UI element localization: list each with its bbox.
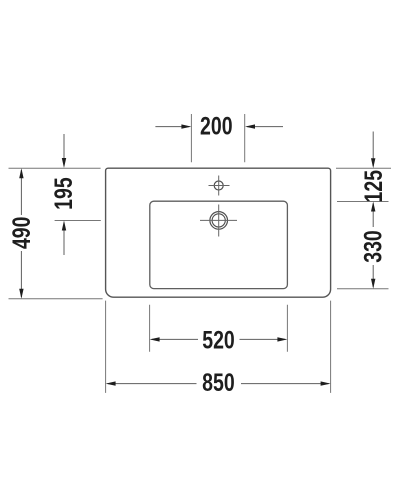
drain crosshair (200, 205, 237, 237)
dimension 850 dimension line with text gap (108, 383, 329, 385)
dimension 490 bottom arrowhead (19, 289, 23, 299)
faucet hole crosshair (209, 176, 230, 196)
dimension 195 lower arrow line (63, 223, 65, 256)
dimension 330 arrow line with text gap (372, 204, 374, 287)
dimension 200 left arrowhead (181, 124, 191, 128)
dimension 200 extension lines (191, 114, 244, 162)
dimension 490 top extension line (9, 167, 101, 169)
svg-text:125: 125 (359, 170, 387, 203)
dimension 850 right arrowhead (321, 381, 331, 385)
dimension 200 right arrowhead (245, 124, 255, 128)
dimension 850 left arrowhead (106, 381, 116, 385)
dimension 520 left arrowhead (150, 337, 160, 341)
svg-text:520: 520 (202, 326, 235, 354)
dimension 490 dimension line (20, 170, 22, 297)
svg-text:330: 330 (359, 230, 387, 263)
right extension line middle (bowl top) (337, 201, 389, 203)
dimension 330 lower arrowhead (371, 279, 375, 289)
right extension line bottom (bowl bottom) (337, 288, 389, 290)
right extension line top (336, 167, 391, 169)
basin outer outline (106, 168, 331, 297)
dimension 195 lower arrowhead (62, 221, 66, 231)
dimension 195 upper arrow line (63, 134, 65, 166)
svg-text:850: 850 (202, 369, 235, 397)
dimension 125 upper arrowhead (371, 158, 375, 168)
svg-text:490: 490 (8, 217, 36, 250)
dimension 850 extension lines (106, 301, 331, 393)
dimension 125 upper arrow line (372, 132, 374, 167)
dimension 490 top arrowhead (19, 168, 23, 178)
faucet hole circle (214, 181, 223, 190)
dimension 330 upper arrowhead (371, 202, 375, 212)
svg-text:200: 200 (200, 112, 233, 140)
svg-text:195: 195 (50, 177, 78, 210)
dimension 520 right arrowhead (277, 337, 287, 341)
dimension 520 extension lines (150, 305, 288, 352)
drain inner circle (212, 214, 225, 227)
dimension 200 dimension lines (155, 126, 283, 128)
dimension 520 dimension line with text gap (152, 338, 286, 340)
dimension 490 bottom extension line (9, 298, 103, 300)
dimension 195 upper arrowhead (62, 158, 66, 168)
drain outer circle (210, 212, 228, 230)
dimension 195 extension line at drain level (55, 220, 101, 222)
basin inner bowl outline (150, 201, 288, 288)
